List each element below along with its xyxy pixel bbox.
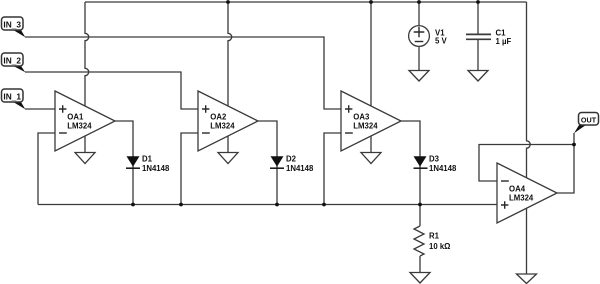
svg-text:LM324: LM324 — [509, 194, 534, 203]
wire OA1 V+ supply from rail with hops over IN_3 and IN_2 — [85, 2, 89, 106]
wire OA3 - input feedback down to bus — [324, 133, 341, 205]
svg-text:D3: D3 — [429, 155, 440, 164]
wire OA4 V+ supply from rail with hop over feedback — [527, 2, 531, 178]
svg-text:5 V: 5 V — [435, 37, 448, 46]
OA3 minus input mark — [345, 132, 353, 134]
wire OA4 output up to OUT node — [557, 133, 574, 193]
resistor R1 zigzag — [414, 226, 424, 256]
wire net IN_3 to OA3 + input — [25, 37, 341, 109]
ground below OA2 — [218, 153, 238, 164]
ground below C1 — [468, 71, 488, 82]
svg-text:LM324: LM324 — [353, 122, 378, 131]
OA3 plus input mark — [345, 105, 352, 112]
wire OA1 V- to ground — [84, 136, 86, 153]
diode D1 cathode bar — [126, 167, 140, 169]
svg-text:OA2: OA2 — [210, 113, 227, 122]
wire OA2 output through D2 to bus — [258, 121, 277, 205]
junction dot OUT node — [572, 143, 576, 147]
OA4 minus input mark — [501, 180, 509, 182]
wire net IN_1 to OA1 + input — [25, 108, 55, 110]
wire OA2 V- to ground — [227, 136, 229, 153]
OA4 plus input mark — [501, 201, 508, 208]
wire C1 to ground — [477, 40, 479, 71]
OA1 minus input mark — [59, 132, 67, 134]
wire C1 to rail — [477, 2, 479, 34]
wire OA1 output through D1 to bus — [115, 121, 133, 205]
svg-text:OUT: OUT — [581, 115, 597, 124]
junction dot bus-D2 — [275, 203, 279, 207]
ground below OA3 — [361, 153, 381, 164]
svg-text:1N4148: 1N4148 — [286, 164, 314, 173]
svg-text:10 kΩ: 10 kΩ — [429, 242, 450, 251]
ground below R1 — [410, 273, 430, 284]
V1 plus mark — [414, 27, 425, 38]
wire OA2 - input feedback down to bus — [181, 133, 198, 205]
ground below OA1 — [75, 153, 95, 164]
wire bus to R1 — [419, 205, 421, 227]
diode D2 arrow — [271, 156, 284, 166]
svg-text:1 µF: 1 µF — [496, 37, 512, 46]
ground below V1 — [409, 71, 429, 82]
diode D2 cathode bar — [270, 167, 284, 169]
junction dot bus-OA2 feedback — [179, 203, 183, 207]
wire top power rail — [85, 1, 527, 3]
junction dot rail-OA2 — [226, 0, 230, 4]
wire R1 to ground — [419, 256, 421, 273]
OA2 plus input mark — [202, 105, 209, 112]
op-amp OA4 body — [497, 163, 557, 223]
svg-text:1N4148: 1N4148 — [429, 164, 457, 173]
svg-text:D2: D2 — [286, 155, 297, 164]
junction dot rail-V1 — [417, 0, 421, 4]
capacitor C1 plates — [466, 34, 491, 39]
wire OA1 - input feedback down to bus — [38, 133, 55, 205]
op-amp OA1 body — [55, 91, 115, 151]
voltage source V1 circle — [409, 26, 430, 47]
svg-text:IN_3: IN_3 — [3, 19, 21, 29]
junction dot rail-OA3 — [369, 0, 373, 4]
wire OA3 V+ supply from rail — [370, 2, 372, 106]
wire V1 to ground — [418, 47, 420, 71]
junction dot rail-C1 — [476, 0, 480, 4]
wire OA3 V- to ground — [370, 136, 372, 153]
diode D3 arrow — [414, 156, 427, 166]
svg-text:OA1: OA1 — [67, 113, 84, 122]
svg-text:OA4: OA4 — [509, 185, 526, 194]
wire OA4 - input feedback from output node — [479, 145, 574, 182]
wire net IN_2 to OA2 + input — [25, 72, 198, 109]
svg-text:IN_1: IN_1 — [3, 91, 21, 101]
wire OA4 V- to ground — [526, 208, 528, 274]
junction dot bus-D1 — [131, 203, 135, 207]
diode D3 cathode bar — [414, 167, 428, 169]
flag IN_3 — [2, 17, 26, 37]
OA2 minus input mark — [202, 132, 210, 134]
wire bottom bus to OA4 + input — [38, 204, 497, 206]
OA1 plus input mark — [59, 105, 66, 112]
flag IN_2 — [2, 53, 26, 72]
junction dot bus-D3-R1 — [418, 203, 422, 207]
svg-text:IN_2: IN_2 — [3, 55, 21, 65]
flag OUT — [574, 113, 599, 134]
svg-text:R1: R1 — [429, 232, 440, 241]
wire OA3 output through D3 to bus — [401, 121, 420, 205]
wire V1 to rail — [418, 2, 420, 25]
svg-text:LM324: LM324 — [210, 122, 235, 131]
svg-text:D1: D1 — [142, 155, 153, 164]
svg-text:1N4148: 1N4148 — [142, 164, 170, 173]
op-amp OA3 body — [341, 91, 401, 151]
svg-text:OA3: OA3 — [353, 113, 370, 122]
V1 minus mark — [415, 41, 424, 43]
ground below OA4 — [517, 274, 537, 284]
wire OA2 V+ supply from rail with hop over IN_3 — [228, 2, 232, 106]
junction dot bus-OA3 feedback — [322, 203, 326, 207]
svg-text:LM324: LM324 — [67, 122, 92, 131]
diode D1 arrow — [127, 156, 140, 166]
flag IN_1 — [2, 89, 26, 109]
op-amp OA2 body — [198, 91, 258, 151]
